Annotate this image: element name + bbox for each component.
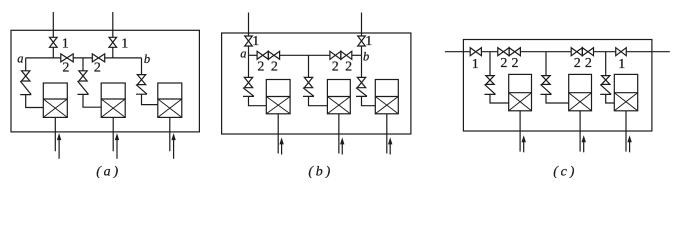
wire: figure (c) header segment valve1L-to-pair1 [481, 51, 497, 53]
wire: figure (a) pump 1 suction pipe down [54, 117, 56, 151]
suction valve (figure a, branch 2) [79, 71, 87, 81]
valve 1 (figure c, left) [470, 48, 481, 56]
wire: figure (a) supply riser 2 upper segment [112, 12, 114, 37]
valve pair 2-2 (figure b, right) [330, 51, 341, 59]
wire: figure (c) branch 2 drop from header [545, 52, 547, 76]
pump unit 3 (figure b) [375, 80, 398, 114]
suction valve (figure c, branch 3) [602, 76, 610, 85]
wire: figure (b) branch 1 drop from header [248, 55, 250, 77]
check valve Z (figure b, branch 2) tail + jog into pump [309, 96, 328, 105]
wire: figure (a) suction header segment a-to-valve2a [26, 57, 61, 59]
pump unit 1 (figure a) [43, 83, 67, 117]
svg-text:1: 1 [365, 34, 372, 49]
svg-text:2: 2 [94, 61, 101, 76]
pump unit 2 (figure a) [101, 83, 125, 117]
figure (c) enclosure box [463, 40, 652, 132]
check valve Z (figure a, branch 3) tail + jog into pump [142, 94, 158, 104]
suction valve (figure b, branch 3) [357, 77, 365, 87]
svg-text:a: a [240, 47, 246, 61]
suction valve (figure a, branch 1) [22, 71, 30, 81]
figure (a) enclosure box [11, 30, 199, 132]
svg-text:2: 2 [332, 60, 339, 75]
wire: figure (a) header segment valve2a-to-valve2b [73, 57, 92, 59]
wire: figure (b) header middle segment [280, 54, 330, 56]
wire: figure (a) pump 3 suction pipe down [169, 117, 171, 151]
suction valve (figure a, branch 3) [137, 75, 145, 85]
svg-text:2: 2 [585, 56, 592, 71]
wire: figure (b) supply riser 2 upper segment [361, 13, 363, 37]
valve 1 (figure b, riser 1) [245, 36, 253, 46]
check valve Z (figure c, branch 1) tail + jog into pump [490, 94, 509, 103]
svg-text:2: 2 [62, 61, 69, 76]
svg-text:a: a [17, 52, 23, 66]
wire: figure (b) pump 2 suction pipe down [338, 114, 340, 154]
valve 2a (figure a) [61, 54, 73, 62]
svg-text:1: 1 [121, 37, 128, 52]
flow arrow (figure a, pump 1) [58, 139, 60, 159]
wire: figure (a) supply riser 1 upper segment [52, 12, 54, 37]
check valve Z (figure a, branch 1) tail + jog into pump [26, 95, 44, 108]
svg-text:2: 2 [574, 56, 581, 71]
wire: figure (b) pump 3 suction pipe down [386, 114, 388, 154]
wire: figure (b) branch 2 drop from header [308, 55, 310, 77]
svg-text:2: 2 [500, 56, 507, 71]
flow arrow (figure c, pump 2) [583, 141, 585, 152]
pump unit 1 (figure c) [509, 74, 532, 110]
wire: figure (a) branch 1 drop from header [25, 58, 27, 71]
flow arrow (figure c, pump 1) [523, 141, 525, 152]
wire: figure (c) branch 3 drop from header [605, 52, 607, 76]
valve 1 (figure a, riser 1) [50, 37, 58, 47]
svg-text:2: 2 [345, 60, 352, 75]
wire: figure (a) supply riser 1 lower segment [52, 47, 54, 58]
suction valve (figure b, branch 2) [304, 77, 312, 87]
wire: figure (c) header centre segment [520, 51, 571, 53]
svg-text:( c ): ( c ) [553, 164, 574, 178]
flow arrow (figure b, pump 2) [341, 143, 343, 154]
wire: figure (b) supply riser 1 lower segment [248, 46, 250, 55]
wire: figure (b) header segment right pair-to-b [352, 54, 362, 56]
wire: figure (b) pump 1 suction pipe down [277, 114, 279, 154]
valve 2b (figure a) [92, 54, 104, 62]
pump unit 1 (figure b) [266, 80, 290, 114]
pump unit 3 (figure a) [158, 83, 182, 117]
wire: figure (c) header left outboard segment [445, 51, 470, 53]
flow arrow (figure c, pump 3) [629, 141, 631, 152]
svg-text:2: 2 [271, 60, 278, 75]
flow arrow (figure b, pump 3) [389, 143, 391, 154]
suction valve (figure c, branch 2) [542, 76, 550, 85]
valve 1 (figure b, riser 2) [358, 36, 366, 46]
wire: figure (c) pump 2 suction pipe down [579, 111, 581, 152]
wire: figure (b) branch 3 drop from header [361, 55, 363, 77]
svg-text:1: 1 [618, 57, 625, 72]
wire: figure (c) header segment pair2-to-valve1R [594, 51, 616, 53]
flow arrow (figure a, pump 2) [116, 139, 118, 159]
wire: figure (a) branch 3 drop from header [141, 58, 143, 75]
flow arrow (figure a, pump 3) [173, 139, 175, 159]
check valve Z (figure a, branch 2) tail + jog into pump [83, 94, 101, 107]
valve pair 2-2 (figure c, left) [498, 48, 509, 56]
wire: figure (a) branch 2 drop from header [82, 58, 84, 71]
svg-text:b: b [144, 52, 150, 66]
svg-text:2: 2 [512, 56, 519, 71]
svg-text:( a ): ( a ) [96, 164, 118, 178]
wire: figure (a) pump 2 suction pipe down [112, 117, 114, 151]
pump unit 3 (figure c) [614, 74, 637, 110]
suction valve (figure b, branch 1) [244, 77, 252, 87]
check valve Z (figure c, branch 3) tail + jog into pump [606, 94, 615, 103]
wire: figure (b) supply riser 2 lower segment [361, 46, 363, 55]
svg-text:( b ): ( b ) [308, 164, 330, 178]
svg-text:1: 1 [62, 37, 69, 52]
svg-text:1: 1 [472, 57, 479, 72]
valve 1 (figure a, riser 2) [109, 37, 117, 47]
wire: figure (b) supply riser 1 upper segment [248, 13, 250, 37]
wire: figure (c) pump 3 suction pipe down [625, 111, 627, 152]
svg-text:b: b [363, 49, 369, 63]
wire: figure (c) branch 1 drop from header [489, 52, 491, 76]
valve pair 2-2 (figure c, right) [571, 48, 582, 56]
valve pair 2-2 (figure b, left) [257, 51, 268, 59]
wire: figure (c) pump 1 suction pipe down [519, 111, 521, 152]
wire: figure (c) header right outboard segment [626, 51, 670, 53]
valve 1 (figure c, right) [616, 48, 627, 56]
pump unit 2 (figure b) [327, 80, 350, 114]
wire: figure (a) header segment valve2b-to-b [105, 57, 142, 59]
flow arrow (figure b, pump 1) [281, 143, 283, 154]
suction valve (figure c, branch 1) [486, 76, 494, 85]
wire: figure (a) supply riser 2 lower segment [112, 47, 114, 58]
svg-text:2: 2 [257, 60, 264, 75]
figure (b) enclosure box [222, 33, 411, 134]
check valve Z (figure c, branch 2) tail + jog into pump [546, 94, 569, 103]
check valve Z (figure b, branch 1) tail + jog into pump [249, 96, 267, 105]
wire: figure (b) header segment a-to-left pair [249, 54, 258, 56]
pump unit 2 (figure c) [569, 74, 592, 110]
check valve Z (figure b, branch 3) tail + jog into pump [362, 96, 376, 105]
svg-text:1: 1 [252, 34, 259, 49]
